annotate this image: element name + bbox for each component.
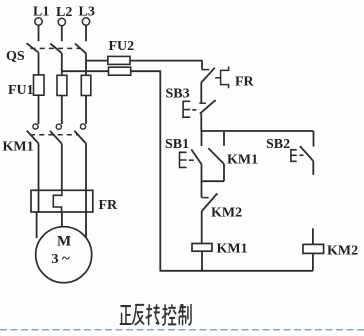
fuse FU2 upper	[108, 56, 130, 64]
wire FU1 pole3 to KM1	[85, 96, 87, 125]
FR heater wire pole3 (through box)	[85, 190, 87, 212]
svg-text:SB3: SB3	[166, 87, 190, 102]
svg-text:KM1: KM1	[3, 140, 34, 155]
svg-text:FR: FR	[235, 75, 255, 90]
wire L3 tap to FU2 upper fuse	[86, 60, 108, 62]
SB1 actuator E	[180, 152, 187, 167]
pushbutton SB3 (NC) tick	[199, 102, 206, 104]
wire to KM2 coil (below scan break)	[312, 228, 314, 244]
fuse FU1 pole1	[34, 75, 45, 95]
char 制	[179, 304, 191, 325]
svg-text:M: M	[57, 234, 71, 250]
relay contact FR (NC) tick	[202, 69, 209, 71]
char 反	[132, 305, 144, 325]
svg-text:SB2: SB2	[266, 137, 290, 152]
merge bar SB1/KM1	[201, 180, 224, 182]
wire KM1 pole2 to FR box	[61, 144, 63, 191]
char 转	[146, 304, 160, 325]
svg-text:3 ~: 3 ~	[52, 251, 71, 267]
char 正	[120, 306, 132, 324]
wire KM1 pole1 to FR box	[38, 143, 40, 190]
wire FU1 pole2 to KM1	[61, 96, 63, 125]
FR heater wire pole1 (through box)	[38, 190, 40, 212]
svg-text:FU2: FU2	[109, 39, 135, 54]
FR heater pole2 jog	[53, 190, 62, 212]
wire FU2 lower to left control rail	[131, 71, 161, 271]
KM1 aux blade	[208, 148, 223, 164]
coil KM2	[303, 244, 324, 253]
svg-text:L2: L2	[56, 5, 72, 20]
contactor KM1 main pole1 (hook + blade)	[33, 124, 38, 129]
contactor KM1 main pole2 (hook + blade)	[56, 124, 61, 129]
SB2 actuator E	[291, 150, 297, 162]
KM1 mechanical link (dashed)	[30, 134, 79, 136]
svg-text:SB1: SB1	[165, 137, 189, 152]
wire SB2 lower (faded break in scan)	[312, 161, 314, 175]
bottom dashed blue line	[0, 329, 364, 331]
coil KM1	[192, 244, 212, 252]
wire FU1 pole1 to KM1	[38, 95, 40, 124]
wire L2 tap to FU2 lower fuse	[62, 70, 109, 72]
wire QS pole3 to FU1 (tap to FU2 at y=60.6)	[85, 53, 87, 75]
char 控	[162, 304, 176, 325]
contactor KM1 aux (NO) top stub	[223, 131, 225, 146]
control rail (top)	[201, 130, 313, 132]
thermal relay FR heater box	[31, 190, 93, 212]
wire KM2 contact to KM1 coil	[201, 211, 203, 244]
SB3 actuator E	[183, 101, 190, 117]
wire SB1 lower	[201, 164, 203, 181]
wire L2 to QS	[61, 26, 63, 41]
wire SB3 to rail	[200, 114, 202, 131]
wire FR to SB3	[200, 83, 202, 103]
KM2 NC blade	[202, 194, 217, 211]
wire FR box to motor (pole1)	[36, 212, 38, 238]
wire QS pole1 to FU1	[38, 52, 40, 75]
pushbutton SB1 (NO) top stub	[201, 131, 203, 146]
svg-text:KM1: KM1	[227, 153, 258, 168]
wire KM1 aux lower	[223, 164, 225, 182]
fuse FU1 pole3	[81, 75, 91, 95]
svg-text:FU1: FU1	[8, 83, 34, 98]
svg-text:KM2: KM2	[211, 206, 242, 221]
pushbutton SB1 blade	[191, 149, 201, 164]
bottom control rail	[160, 270, 313, 272]
svg-text:L1: L1	[33, 5, 49, 20]
svg-text:FR: FR	[99, 198, 119, 213]
fuse FU2 lower	[109, 67, 131, 75]
pushbutton SB2 blade	[300, 146, 313, 161]
svg-text:KM2: KM2	[327, 244, 358, 259]
wire FU2 upper to control top corner	[130, 61, 202, 70]
wire QS pole2 to FU1	[61, 53, 63, 75]
svg-text:KM1: KM1	[217, 242, 248, 257]
wire L1 to QS	[38, 25, 40, 41]
fuse FU1 pole2	[57, 75, 67, 95]
wire FR box to motor (pole2)	[61, 212, 63, 227]
switch QS pole 2 blade	[50, 44, 61, 54]
pushbutton SB2 (NO) top stub	[313, 131, 315, 147]
pushbutton SB3 blade	[200, 100, 215, 113]
switch QS pole 3 blade	[75, 44, 86, 54]
FR actuator bracket	[215, 77, 220, 79]
motor M circle	[36, 227, 92, 283]
wire KM1 coil to bottom rail	[201, 251, 203, 271]
wire KM2 coil to bottom rail	[312, 253, 314, 270]
wire L3 to QS	[85, 25, 87, 41]
wire merge to KM2 contact	[201, 181, 203, 197]
QS mechanical link (dashed)	[31, 47, 81, 49]
relay contact FR blade	[201, 68, 215, 83]
contactor KM1 main pole3 (hook + blade)	[80, 124, 85, 129]
wire FR box to motor (pole3)	[85, 212, 87, 238]
wire KM1 pole3 to FR box	[85, 144, 87, 191]
caption 正反转控制 (hand-drawn strokes)	[120, 304, 191, 325]
switch QS pole 1 blade	[27, 43, 39, 52]
svg-text:QS: QS	[6, 49, 25, 64]
interlock contact KM2 (NC) tick	[202, 197, 209, 199]
